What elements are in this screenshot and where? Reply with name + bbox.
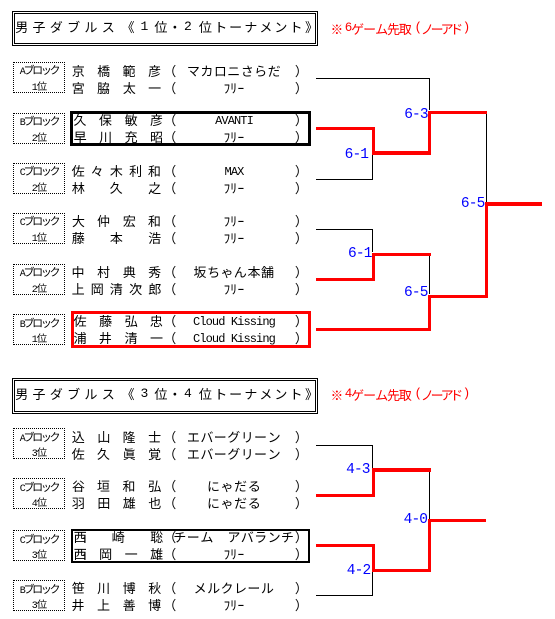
entry 2 names — [74, 113, 164, 126]
wire: SF1 loser vertical (black) — [486, 114, 487, 202]
wire: E3 line (black) — [316, 179, 372, 180]
score 6-1 — [345, 148, 369, 163]
score 4-3 — [346, 463, 370, 478]
entry 10 names — [72, 581, 162, 594]
title box 1 — [12, 11, 318, 46]
entry 3 names — [72, 164, 162, 177]
entry 7 names — [72, 430, 162, 443]
wire: B4 line (black) — [316, 595, 373, 596]
entry box C3 bottom (winner box, black) — [71, 529, 310, 563]
entry 5 names — [72, 265, 162, 278]
score 6-3 — [404, 108, 428, 123]
title 1 text — [15, 20, 119, 33]
wire: E6 winner line (red) — [316, 328, 431, 331]
entry 9 names — [74, 530, 164, 543]
entry box B1 (winner box, red) — [71, 311, 311, 348]
red note — [330, 388, 343, 401]
label box Bblock 3 — [13, 580, 65, 611]
title 2 text — [15, 387, 119, 400]
red note — [330, 22, 343, 35]
label box Cblock 3 — [13, 530, 65, 561]
wire: SF1 winner junction (red) — [428, 111, 431, 155]
label box Cblock 4 — [13, 478, 65, 509]
entry 1 names — [72, 64, 162, 77]
label box Cblock 2 — [13, 163, 65, 194]
label box Ablock 2 — [13, 264, 65, 295]
wire: B3 winner line (red) — [316, 544, 376, 547]
label box Bblock 2 — [13, 113, 65, 144]
entry 6 names — [74, 314, 164, 327]
wire: E2 winner line (red) — [316, 127, 372, 130]
wire: E5 winner line (red) — [316, 278, 376, 281]
wire: E4 line (black) — [316, 229, 372, 230]
score 4-0 — [404, 513, 428, 528]
title box 2 — [12, 378, 318, 414]
wire: final winner (red) — [485, 202, 488, 298]
entry 8 names — [72, 479, 162, 492]
score 6-5 — [461, 197, 485, 212]
score 4-2 — [347, 564, 371, 579]
entry box B2 (winner box, black) — [70, 111, 311, 146]
label box Cblock 1 — [13, 213, 65, 244]
score 6-5 — [404, 286, 428, 301]
label box Bblock 1 — [13, 314, 65, 345]
wire: B1 line (black) — [316, 445, 372, 446]
wire: E1 line (black) — [316, 78, 429, 79]
score 6-1 — [348, 247, 372, 262]
entry 4 names — [72, 214, 162, 227]
wire: SF2 loser vertical (black) — [429, 256, 430, 294]
wire: bottom final loser vertical (black) — [429, 472, 430, 520]
wire: bottom final winner (red) — [428, 519, 431, 572]
wire: B2 winner line (red) — [316, 494, 372, 497]
label box Ablock 1 — [13, 62, 65, 93]
label box Ablock 3 — [13, 428, 65, 459]
